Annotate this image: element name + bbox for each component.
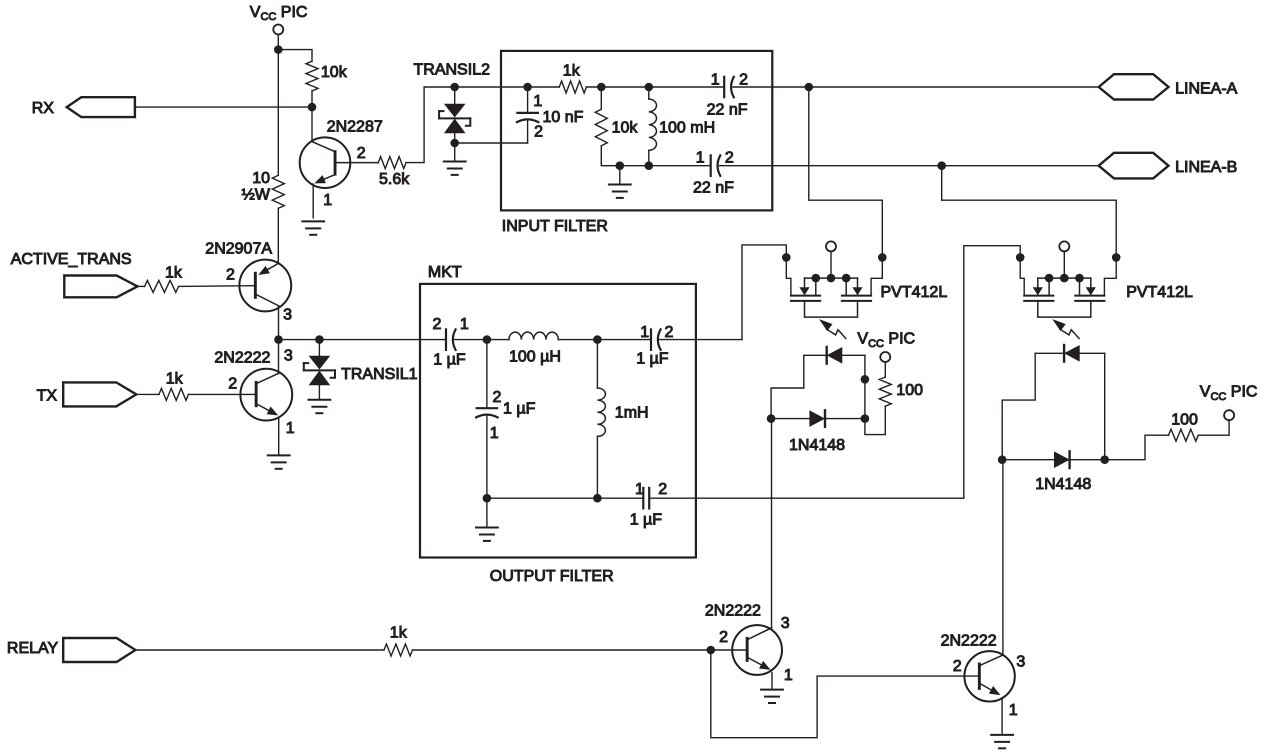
svg-text:RELAY: RELAY <box>7 640 59 657</box>
svg-text:1k: 1k <box>165 265 183 282</box>
svg-text:1k: 1k <box>563 63 581 80</box>
svg-text:1: 1 <box>640 324 649 341</box>
svg-text:1: 1 <box>1009 702 1018 719</box>
svg-text:OUTPUT FILTER: OUTPUT FILTER <box>490 568 614 585</box>
svg-text:22 nF: 22 nF <box>693 180 734 197</box>
svg-text:½W: ½W <box>242 187 271 204</box>
svg-text:2N2222: 2N2222 <box>214 349 270 366</box>
svg-text:100: 100 <box>896 382 923 399</box>
svg-text:2: 2 <box>228 375 237 392</box>
svg-text:ACTIVE_TRANS: ACTIVE_TRANS <box>11 251 132 268</box>
svg-text:PVT412L: PVT412L <box>881 284 948 301</box>
svg-text:LINEA-A: LINEA-A <box>1175 80 1238 97</box>
svg-text:1 µF: 1 µF <box>636 351 669 368</box>
svg-text:1: 1 <box>323 192 332 209</box>
svg-text:2: 2 <box>493 389 502 406</box>
svg-text:TX: TX <box>37 388 58 405</box>
svg-text:VCC PIC: VCC PIC <box>250 4 308 23</box>
svg-text:VCC PIC: VCC PIC <box>857 331 915 350</box>
svg-text:2N2287: 2N2287 <box>327 118 383 135</box>
svg-text:3: 3 <box>283 307 292 324</box>
svg-text:1 µF: 1 µF <box>433 352 466 369</box>
svg-text:1: 1 <box>286 420 295 437</box>
svg-text:LINEA-B: LINEA-B <box>1175 159 1237 176</box>
svg-text:2N2222: 2N2222 <box>941 633 997 650</box>
svg-text:RX: RX <box>32 100 55 117</box>
svg-text:2: 2 <box>725 150 734 167</box>
svg-text:1k: 1k <box>166 370 184 387</box>
svg-text:PVT412L: PVT412L <box>1126 284 1193 301</box>
svg-text:2: 2 <box>739 72 748 89</box>
svg-text:1N4148: 1N4148 <box>789 437 845 454</box>
svg-text:2: 2 <box>719 629 728 646</box>
svg-text:3: 3 <box>781 615 790 632</box>
svg-text:VCC PIC: VCC PIC <box>1200 384 1258 403</box>
svg-text:2: 2 <box>226 267 235 284</box>
svg-text:1: 1 <box>533 93 542 110</box>
svg-text:1 µF: 1 µF <box>630 512 663 529</box>
svg-text:22 nF: 22 nF <box>707 102 748 119</box>
svg-text:1mH: 1mH <box>615 405 649 422</box>
svg-text:2N2222: 2N2222 <box>705 602 761 619</box>
svg-text:2: 2 <box>433 316 442 333</box>
svg-text:2: 2 <box>953 658 962 675</box>
svg-text:1: 1 <box>784 667 793 684</box>
svg-text:2: 2 <box>534 124 543 141</box>
svg-text:INPUT FILTER: INPUT FILTER <box>502 218 608 235</box>
svg-text:5.6k: 5.6k <box>379 171 410 188</box>
svg-text:2: 2 <box>357 145 366 162</box>
svg-text:1: 1 <box>490 425 499 442</box>
svg-text:1k: 1k <box>390 625 408 642</box>
svg-text:10k: 10k <box>612 120 639 137</box>
svg-text:1 µF: 1 µF <box>503 401 536 418</box>
svg-text:100 mH: 100 mH <box>659 120 715 137</box>
svg-text:10 nF: 10 nF <box>543 109 584 126</box>
svg-text:2N2907A: 2N2907A <box>205 240 272 257</box>
svg-text:3: 3 <box>284 348 293 365</box>
svg-text:1: 1 <box>711 72 720 89</box>
svg-text:10k: 10k <box>321 64 348 81</box>
svg-text:1: 1 <box>635 481 644 498</box>
svg-text:2: 2 <box>658 481 667 498</box>
svg-text:1: 1 <box>460 316 469 333</box>
svg-text:TRANSIL2: TRANSIL2 <box>414 62 491 79</box>
svg-text:TRANSIL1: TRANSIL1 <box>341 366 418 383</box>
svg-text:1N4148: 1N4148 <box>1035 476 1091 493</box>
svg-text:100 µH: 100 µH <box>509 349 561 366</box>
svg-text:10: 10 <box>252 170 270 187</box>
svg-text:1: 1 <box>696 150 705 167</box>
svg-text:3: 3 <box>1016 654 1025 671</box>
svg-text:MKT: MKT <box>428 264 462 281</box>
svg-text:100: 100 <box>1171 412 1198 429</box>
svg-text:2: 2 <box>665 324 674 341</box>
